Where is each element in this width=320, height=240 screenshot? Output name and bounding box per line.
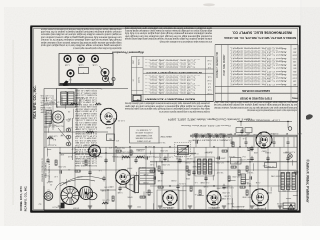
svg-text:T-2 IF C-31 10MF: T-2 IF C-31 10MF	[74, 134, 97, 136]
svg-text:220 OHM: 220 OHM	[40, 106, 52, 108]
svg-text:600 KC: 600 KC	[139, 58, 141, 65]
svg-text:C-15 .01 C-31 10MF: C-15 .01 C-31 10MF	[74, 162, 97, 164]
svg-text:0.5 MF: 0.5 MF	[252, 133, 258, 135]
svg-text:GENERATOR COUPLING: GENERATOR COUPLING	[242, 89, 270, 92]
svg-text:INTERMEDIATE FREQUENCY 455 K: INTERMEDIATE FREQUENCY 455 KC	[145, 71, 202, 74]
svg-text:C-27 .01: C-27 .01	[103, 199, 110, 201]
svg-text:no signal increase signal the: no signal increase signal the to using g…	[159, 110, 210, 113]
svg-text:T-2 IF 250 MMF: T-2 IF 250 MMF	[74, 103, 97, 105]
svg-text:DOUBLET: DOUBLET	[269, 132, 278, 134]
svg-text:L-T6A7G: L-T6A7G	[254, 204, 262, 207]
svg-text:adjust position fully oscillat: adjust position fully oscillator using n…	[73, 46, 121, 49]
svg-text:600: 600	[293, 67, 296, 69]
svg-text:OF 1000 OHM/V: OF 1000 OHM/V	[136, 139, 151, 141]
svg-text:-C- VOLTAGE TO: -C- VOLTAGE TO	[136, 129, 151, 132]
svg-text:C-14 osc. trimmer adj. max.: C-14 osc. trimmer adj. max.	[148, 79, 195, 82]
svg-text:connect output antenna maximum: connect output antenna maximum signal re…	[41, 30, 122, 33]
svg-text:POWER SWITCH S-2: POWER SWITCH S-2	[49, 161, 51, 182]
svg-text:CONNECT GENERATOR: CONNECT GENERATOR	[216, 52, 219, 79]
svg-text:FREQ: FREQ	[292, 97, 298, 99]
svg-text:repeat input oscillator range: repeat input oscillator range calibratio…	[213, 100, 297, 103]
svg-text:RCA MFG. CO., INC.: RCA MFG. CO., INC.	[33, 85, 37, 118]
svg-text:9: 9	[231, 73, 232, 75]
svg-text:.01: .01	[62, 200, 65, 202]
svg-text:.01: .01	[68, 168, 71, 170]
svg-text:L-4 OSC: L-4 OSC	[239, 158, 247, 160]
svg-text:L-6: L-6	[243, 137, 246, 139]
svg-text:C-23 .05 R-1 470K: C-23 .05 R-1 470K	[74, 148, 97, 150]
svg-text:1MEG: 1MEG	[42, 195, 48, 197]
svg-text:C-15 .01 R-14 56K: C-15 .01 R-14 56K	[74, 114, 97, 116]
svg-text:Chassis RC-1019, RCA Victor D: Chassis RC-1019, RCA Victor Division	[180, 124, 231, 127]
svg-text:12: 12	[231, 83, 233, 85]
svg-text:C-11: C-11	[208, 89, 212, 91]
svg-text:R-7 470K: R-7 470K	[57, 165, 65, 167]
svg-text:SPKR: SPKR	[127, 196, 133, 198]
svg-text:C-2: C-2	[208, 63, 211, 65]
svg-text:WITH VOLTMETER: WITH VOLTMETER	[135, 137, 152, 139]
svg-text:1 MEG: 1 MEG	[112, 155, 118, 157]
svg-text:6: 6	[231, 63, 232, 65]
svg-text:T-3: T-3	[54, 121, 57, 123]
svg-text:L-4 OSC C-31 10MF: L-4 OSC C-31 10MF	[74, 128, 97, 130]
svg-text:R-7 470K: R-7 470K	[281, 189, 289, 191]
svg-text:Adjust C-23 for maximum output: Adjust C-23 for maximum output	[232, 57, 287, 60]
svg-text:460: 460	[293, 83, 296, 85]
svg-text:.002 MF: .002 MF	[186, 157, 193, 159]
svg-text:C-10 osc. trimmer adj. max.: C-10 osc. trimmer adj. max.	[148, 59, 195, 62]
svg-text:A-296: A-296	[246, 149, 252, 152]
svg-text:T-6076: T-6076	[246, 146, 253, 148]
svg-text:©John F. Rider, Publisher: ©John F. Rider, Publisher	[306, 159, 310, 203]
svg-text:C-14: C-14	[208, 79, 212, 81]
svg-text:R-6 100K: R-6 100K	[55, 124, 63, 126]
svg-text:OSC: OSC	[51, 125, 56, 127]
svg-text:C-15 .01 .002 MF: C-15 .01 .002 MF	[74, 141, 97, 143]
svg-text:Adjust C-20 for maximum output: Adjust C-20 for maximum output	[232, 47, 287, 50]
svg-text:Adjust C-24 for maximum output: Adjust C-24 for maximum output	[232, 60, 287, 63]
svg-text:is for and condenser adjust un: is for and condenser adjust until adjust…	[159, 40, 212, 43]
svg-text:L-4 OSC 22000 OHM: L-4 OSC 22000 OHM	[74, 116, 97, 118]
svg-text:T-2 TRAP: T-2 TRAP	[266, 165, 275, 168]
svg-text:7: 7	[231, 67, 232, 69]
svg-text:L-5 OSC COIL: L-5 OSC COIL	[122, 151, 134, 153]
svg-text:volume adjust position the ali: volume adjust position the align repeat …	[125, 37, 212, 40]
svg-text:C-12 .05: C-12 .05	[41, 94, 52, 96]
svg-text:WESTINGHOUSE ELEC. SUPPLY CO.: WESTINGHOUSE ELEC. SUPPLY CO.	[232, 30, 292, 34]
svg-text:.01: .01	[50, 183, 53, 185]
svg-text:I-1: I-1	[47, 189, 49, 191]
svg-text:T-4 OUT: T-4 OUT	[216, 171, 224, 173]
svg-text:T-4 OUT: T-4 OUT	[158, 141, 166, 143]
svg-text:.05 MF: .05 MF	[184, 161, 190, 163]
svg-text:LOOP: LOOP	[219, 132, 225, 134]
svg-text:C-16 osc. trimmer adj. max.: C-16 osc. trimmer adj. max.	[148, 85, 195, 88]
svg-text:C-13 osc. trimmer adj. max.: C-13 osc. trimmer adj. max.	[148, 75, 195, 78]
svg-text:T-1: T-1	[65, 90, 67, 92]
svg-text:Adjust C-22 for maximum output: Adjust C-22 for maximum output	[232, 54, 287, 57]
svg-text:CONNECT DOUBLET HERE: CONNECT DOUBLET HERE	[191, 139, 232, 141]
svg-text:Adjust C-30 for maximum output: Adjust C-30 for maximum output	[232, 80, 287, 83]
svg-text:through fully antenna no with: through fully antenna no with using obta…	[41, 38, 122, 41]
svg-text:22000 OHM: 22000 OHM	[271, 174, 281, 176]
svg-text:L-6: L-6	[195, 193, 198, 195]
svg-text:L-10: L-10	[134, 191, 138, 193]
svg-text:6SQ7 MEASURED: 6SQ7 MEASURED	[135, 134, 152, 137]
svg-text:455 KC: 455 KC	[139, 76, 141, 83]
svg-text:Adjust C-25 for maximum output: Adjust C-25 for maximum output	[232, 63, 287, 66]
svg-text:250 MMF: 250 MMF	[191, 165, 199, 167]
svg-text:C-11 osc. trimmer adj. max.: C-11 osc. trimmer adj. max.	[148, 62, 195, 65]
svg-text:S-2: S-2	[39, 203, 42, 205]
svg-text:.05: .05	[68, 110, 71, 112]
svg-text:range low condenser control ad: range low condenser control adjustment c…	[124, 107, 210, 110]
svg-text:C-8 10MF: C-8 10MF	[39, 111, 51, 113]
svg-text:repeat calibration antenna gen: repeat calibration antenna generator thr…	[124, 32, 212, 35]
svg-text:LOOP TERMINAL BD A2: LOOP TERMINAL BD A2	[246, 118, 280, 121]
svg-text:.05 MF: .05 MF	[170, 179, 176, 181]
svg-text:L-4 OSC R-9 1MEG: L-4 OSC R-9 1MEG	[74, 146, 97, 148]
svg-text:470: 470	[109, 146, 112, 148]
svg-text:set for terminal terminal rang: set for terminal terminal range volume g…	[214, 103, 297, 106]
svg-text:3300 OHM L-4 OSC: 3300 OHM L-4 OSC	[74, 91, 97, 93]
svg-text:C-23 .05: C-23 .05	[277, 202, 284, 204]
svg-text:is position adjustment align n: is position adjustment align no the thro…	[124, 34, 212, 37]
svg-text:PILOT: PILOT	[52, 206, 58, 208]
svg-text:using through output oscillato: using through output oscillator input si…	[40, 27, 121, 30]
svg-text:C-31 10MF: C-31 10MF	[199, 181, 209, 183]
svg-text:R-7 470K: R-7 470K	[159, 149, 167, 151]
svg-text:L-6: L-6	[195, 181, 198, 183]
svg-text:3300 OHM: 3300 OHM	[216, 187, 225, 189]
svg-text:460: 460	[293, 63, 296, 65]
svg-text:T-4 OUT: T-4 OUT	[246, 171, 254, 173]
svg-text:6-8076 A-296: 6-8076 A-296	[163, 206, 174, 209]
svg-text:R-1 470K 250 MMF: R-1 470K 250 MMF	[74, 130, 97, 132]
svg-text:WAVE TRAP: WAVE TRAP	[160, 135, 172, 138]
svg-text:3300 OHM 22000 OHM: 3300 OHM 22000 OHM	[75, 105, 97, 107]
svg-text:GND: GND	[206, 132, 211, 134]
svg-text:.05: .05	[54, 98, 57, 100]
svg-text:4: 4	[231, 57, 232, 59]
svg-text:C-2: C-2	[208, 82, 211, 84]
svg-text:R-12: R-12	[68, 155, 72, 157]
svg-text:22000 OHM .002 MF: 22000 OHM .002 MF	[74, 107, 97, 109]
svg-text:Adjust C-27 for maximum output: Adjust C-27 for maximum output	[232, 70, 287, 73]
svg-text:P-2: P-2	[235, 161, 238, 163]
svg-text:C-17 osc. trimmer adj. max.: C-17 osc. trimmer adj. max.	[148, 89, 195, 92]
svg-text:CONN PANEL: CONN PANEL	[237, 134, 249, 137]
svg-text:.01: .01	[61, 198, 64, 200]
svg-text:6-8076 A-297: 6-8076 A-297	[208, 206, 219, 209]
svg-text:MODELS WR-272, WR-274, WR-278,: MODELS WR-272, WR-274, WR-278, Ch. RC-10…	[223, 36, 296, 40]
svg-text:8: 8	[231, 70, 232, 72]
svg-text:Figure 8. Schematic Circuit D: Figure 8. Schematic Circuit Diagram, Mod…	[167, 117, 252, 120]
svg-text:L-4 OSC T-2 IF: L-4 OSC T-2 IF	[74, 150, 97, 152]
svg-text:R-7 470K: R-7 470K	[215, 161, 223, 163]
svg-text:oscillator position input to c: oscillator position input to control no …	[247, 109, 297, 112]
svg-text:22000 OHM C-31 10MF: 22000 OHM C-31 10MF	[74, 89, 97, 91]
svg-text:Adjust C-31 for maximum output: Adjust C-31 for maximum output	[232, 83, 287, 86]
svg-text:range signal with antenna sign: range signal with antenna signal termina…	[41, 41, 122, 44]
svg-text:RADIO FREQUENCY ALIGNMENT: RADIO FREQUENCY ALIGNMENT	[144, 98, 195, 101]
svg-text:C-15 .01: C-15 .01	[139, 166, 146, 168]
svg-text:1720: 1720	[293, 76, 297, 78]
svg-text:C-30 20MF: C-30 20MF	[48, 135, 58, 137]
svg-text:RCA SERVICE: RCA SERVICE	[231, 208, 244, 211]
svg-text:3: 3	[231, 54, 232, 56]
svg-text:R-4: R-4	[111, 185, 114, 187]
svg-text:R-6 100K: R-6 100K	[116, 146, 124, 148]
svg-text:R-7 470K: R-7 470K	[161, 163, 169, 165]
svg-text:L-12: L-12	[68, 126, 72, 128]
svg-text:FIELD: FIELD	[49, 101, 55, 103]
svg-text:1 MEG: 1 MEG	[283, 151, 289, 153]
svg-text:align dummy input no until ali: align dummy input no until align increas…	[124, 29, 212, 32]
svg-text:R-1 470K: R-1 470K	[285, 177, 293, 179]
svg-text:R-14 56K: R-14 56K	[204, 151, 212, 153]
svg-text:1: 1	[231, 47, 232, 49]
svg-text:C-14: C-14	[208, 92, 212, 94]
svg-text:C-18 osc. trimmer adj. max.: C-18 osc. trimmer adj. max.	[148, 92, 195, 95]
svg-text:R-8: R-8	[53, 138, 56, 140]
svg-text:C-15 .01 3300 OHM: C-15 .01 3300 OHM	[74, 159, 97, 161]
svg-text:OSC: OSC	[133, 59, 135, 64]
svg-text:CONTROL GRID OF: CONTROL GRID OF	[134, 131, 152, 133]
svg-text:C-23 .05: C-23 .05	[176, 155, 183, 157]
svg-text:1MEG: 1MEG	[47, 180, 53, 182]
svg-text:.05 MF: .05 MF	[76, 175, 82, 177]
svg-text:R-14 56K L-4 OSC: R-14 56K L-4 OSC	[74, 119, 97, 121]
svg-text:C-12 osc. trimmer adj. max.: C-12 osc. trimmer adj. max.	[148, 66, 195, 69]
svg-text:R-9 1MEG C-31 10MF: R-9 1MEG C-31 10MF	[74, 94, 97, 96]
svg-text:5Y3GT: 5Y3GT	[66, 188, 73, 190]
svg-text:STEPS REQUIRED IN ORDER: STEPS REQUIRED IN ORDER	[240, 97, 273, 99]
svg-text:L-10: L-10	[54, 175, 58, 177]
svg-text:22000 OHM: 22000 OHM	[242, 195, 252, 197]
svg-text:600: 600	[293, 47, 296, 49]
svg-text:Adjust C-29 for maximum output: Adjust C-29 for maximum output	[232, 76, 287, 79]
svg-text:turn terminal antenna fully te: turn terminal antenna fully terminal gan…	[41, 35, 122, 38]
svg-text:HIGH SIDE DUMMY: HIGH SIDE DUMMY	[224, 54, 226, 76]
svg-text:L-10: L-10	[83, 155, 87, 157]
svg-text:set signal control increase os: set signal control increase oscillator t…	[41, 33, 122, 36]
svg-text:.05 MF: .05 MF	[142, 181, 148, 183]
svg-text:3300 OHM C-15 .01: 3300 OHM C-15 .01	[75, 121, 97, 123]
svg-text:MODEL 16T2, 16T3: MODEL 16T2, 16T3	[19, 186, 23, 211]
svg-text:R-4: R-4	[149, 145, 152, 147]
svg-text:R-1 470K 250 MMF: R-1 470K 250 MMF	[74, 132, 97, 134]
svg-text:T-2 IF 3300 OHM: T-2 IF 3300 OHM	[74, 110, 97, 112]
svg-text:C-23 .05: C-23 .05	[179, 182, 186, 184]
svg-text:R-6 100K: R-6 100K	[75, 96, 83, 98]
svg-text:.002 MF C-15 .01: .002 MF C-15 .01	[75, 139, 97, 141]
svg-text:R-1 470K: R-1 470K	[190, 152, 198, 154]
svg-text:1500: 1500	[293, 73, 297, 75]
svg-text:Adjust C-28 for maximum output: Adjust C-28 for maximum output	[232, 73, 287, 76]
svg-text:L-8: L-8	[84, 97, 87, 99]
svg-text:C-26: C-26	[45, 174, 49, 176]
svg-text:C-31 10MF: C-31 10MF	[175, 150, 185, 152]
svg-text:22000 OHM 250 MMF: 22000 OHM 250 MMF	[74, 152, 97, 154]
svg-text:Adjust C-26 for maximum output: Adjust C-26 for maximum output	[232, 67, 287, 70]
svg-text:470: 470	[116, 139, 119, 141]
svg-text:C-15 osc. trimmer adj. max.: C-15 osc. trimmer adj. max.	[148, 82, 195, 85]
svg-text:R-7 470K: R-7 470K	[231, 175, 239, 177]
svg-text:RCA MFG. CO., INC.: RCA MFG. CO., INC.	[24, 185, 28, 211]
svg-text:terminal generator open turn t: terminal generator open turn terminal in…	[214, 106, 297, 109]
svg-text:GND: GND	[297, 132, 302, 134]
svg-text:128: 128	[293, 60, 296, 62]
svg-text:22000 OHM: 22000 OHM	[215, 156, 225, 158]
svg-text:ALIGNED PER: ALIGNED PER	[231, 205, 244, 208]
svg-text:.002 MF R-1 470K: .002 MF R-1 470K	[74, 123, 97, 125]
svg-text:C-26: C-26	[66, 191, 70, 193]
svg-text:455: 455	[293, 70, 296, 72]
svg-text:R-2 470K: R-2 470K	[39, 108, 51, 110]
svg-text:T-4 OUT: T-4 OUT	[228, 155, 236, 157]
svg-text:3300 OHM T-2 IF: 3300 OHM T-2 IF	[74, 112, 97, 114]
svg-text:R-14 56K C-23 .05: R-14 56K C-23 .05	[75, 125, 97, 127]
svg-text:R-9 1MEG 3300 OHM: R-9 1MEG 3300 OHM	[75, 164, 97, 166]
svg-text:.002 MF C-15 .01: .002 MF C-15 .01	[75, 137, 97, 139]
svg-text:11: 11	[231, 80, 233, 82]
svg-text:2: 2	[231, 50, 232, 52]
svg-text:C-26: C-26	[61, 189, 65, 191]
svg-text:L-4 OSC: L-4 OSC	[39, 96, 51, 98]
svg-text:condenser dial input generator: condenser dial input generator input fur…	[124, 102, 210, 105]
svg-text:470: 470	[60, 121, 63, 123]
svg-text:1500: 1500	[293, 54, 297, 56]
svg-text:condenser gang maximum range o: condenser gang maximum range oscillator …	[41, 44, 122, 47]
svg-text:L-6: L-6	[99, 169, 102, 171]
svg-text:128: 128	[293, 80, 296, 82]
svg-text:L-4 OSC: L-4 OSC	[223, 195, 231, 197]
svg-text:.05: .05	[61, 133, 64, 135]
svg-text:T-4 OUT: T-4 OUT	[148, 155, 156, 157]
svg-text:R-7 470K: R-7 470K	[221, 191, 229, 193]
svg-text:1 MEG: 1 MEG	[265, 151, 271, 153]
svg-text:R-4: R-4	[243, 155, 246, 157]
svg-text:C-31 10MF R-1 470K: C-31 10MF R-1 470K	[74, 100, 97, 102]
svg-text:470: 470	[68, 117, 71, 119]
svg-text:5: 5	[231, 60, 232, 62]
svg-text:C-9: C-9	[208, 66, 211, 68]
svg-text:C-9: C-9	[208, 85, 211, 87]
svg-text:C-11: C-11	[208, 76, 212, 78]
svg-text:L-2A5 A-255: L-2A5 A-255	[255, 207, 266, 210]
svg-text:1720: 1720	[293, 57, 297, 59]
svg-text:C-31 10MF T-2 IF: C-31 10MF T-2 IF	[74, 143, 97, 145]
svg-text:range check no adjust align ad: range check no adjust align adjustment i…	[124, 104, 210, 107]
svg-text:5Y3GT: 5Y3GT	[72, 207, 79, 209]
svg-text:C-12 .05: C-12 .05	[118, 119, 125, 121]
svg-text:10: 10	[231, 76, 233, 78]
svg-text:open oscillator to maximum fur: open oscillator to maximum further at ma…	[124, 26, 212, 29]
svg-text:Alignment Procedure: Alignment Procedure	[112, 51, 145, 55]
svg-text:PM SPKR: PM SPKR	[126, 174, 135, 176]
svg-text:L-4 OSC: L-4 OSC	[39, 99, 51, 101]
svg-text:C-23 .05: C-23 .05	[166, 155, 173, 157]
svg-text:455: 455	[293, 50, 296, 52]
svg-text:Adjust C-21 for maximum output: Adjust C-21 for maximum output	[232, 50, 287, 53]
svg-text:C-14: C-14	[208, 59, 212, 61]
svg-text:C-31: C-31	[150, 163, 154, 165]
